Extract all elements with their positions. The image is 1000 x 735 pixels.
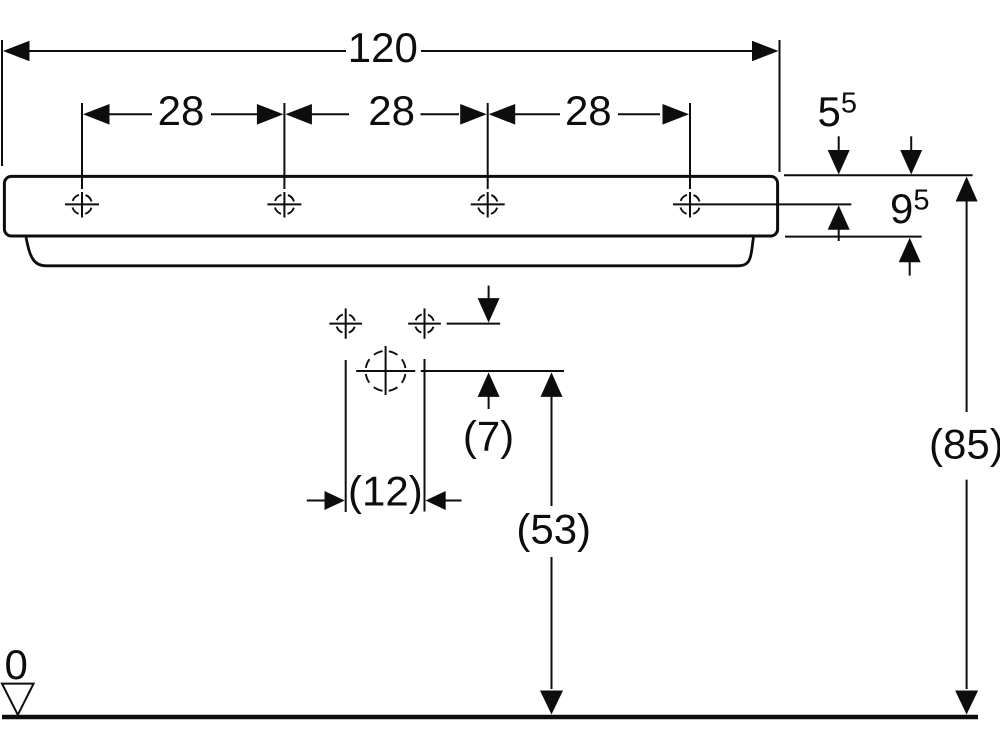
svg-text:28: 28 — [368, 87, 415, 134]
svg-text:(85): (85) — [929, 420, 1000, 467]
svg-text:28: 28 — [565, 87, 612, 134]
svg-text:(53): (53) — [516, 506, 591, 553]
svg-text:(7): (7) — [463, 413, 514, 460]
svg-text:120: 120 — [348, 24, 418, 71]
svg-text:(12): (12) — [348, 468, 423, 515]
svg-text:28: 28 — [158, 87, 205, 134]
svg-text:0: 0 — [5, 641, 28, 688]
